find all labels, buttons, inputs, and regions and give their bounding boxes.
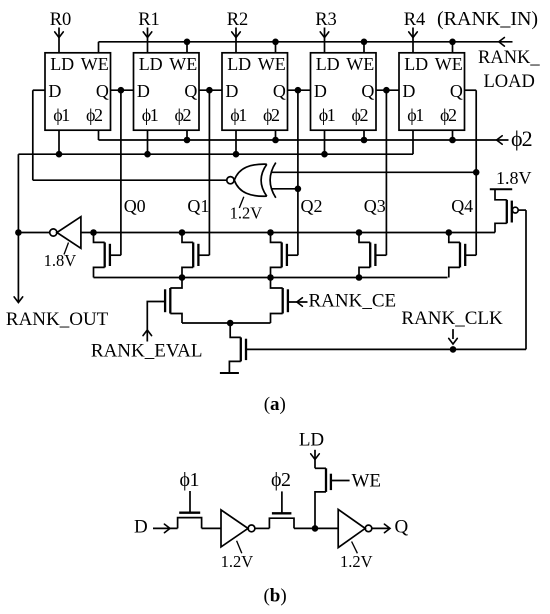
caption (a) xyxy=(264,394,286,415)
svg-text:WE: WE xyxy=(435,54,463,74)
svg-text:ϕ2: ϕ2 xyxy=(263,105,279,125)
wire Q1 vertical to transistor gate xyxy=(208,90,210,255)
input R0 label xyxy=(50,10,72,30)
wire Q4 output tap xyxy=(465,89,477,91)
svg-text:WE: WE xyxy=(258,54,286,74)
wire D input with arrow (fig b) xyxy=(153,524,178,533)
node Q2-XNOR junction xyxy=(295,186,302,193)
svg-text:Q1: Q1 xyxy=(187,196,209,216)
svg-text:D: D xyxy=(134,516,148,537)
register REG2 box xyxy=(222,53,288,130)
wire RANK_CLK input arrow xyxy=(449,329,458,344)
svg-text:ϕ1: ϕ1 xyxy=(53,105,69,125)
svg-text:D: D xyxy=(137,81,150,101)
label RANK_CLK xyxy=(401,308,503,329)
svg-text:LOAD: LOAD xyxy=(484,72,535,92)
xnor gate U1 xyxy=(227,163,276,198)
svg-text:ϕ2: ϕ2 xyxy=(440,105,456,125)
wire Q3 output to REG4 D input xyxy=(376,87,399,94)
svg-text:1.8V: 1.8V xyxy=(44,251,77,270)
label Q2 xyxy=(301,196,323,216)
svg-text:ϕ2: ϕ2 xyxy=(511,126,532,151)
node Q4-XNOR junction xyxy=(473,169,480,176)
label (RANK_IN) xyxy=(437,8,538,30)
wire Q3 vertical to transistor gate xyxy=(385,90,387,255)
label Q output (fig b) xyxy=(395,517,409,538)
svg-text:1.2V: 1.2V xyxy=(230,204,263,223)
svg-text:WE: WE xyxy=(169,54,197,74)
transistor M_CE xyxy=(271,278,308,324)
svg-text:Q: Q xyxy=(361,81,374,101)
svg-text:R3: R3 xyxy=(315,10,337,30)
svg-text:R4: R4 xyxy=(404,10,426,30)
svg-text:Q: Q xyxy=(395,517,409,538)
wire Q2 output to REG3 D input xyxy=(288,87,311,94)
svg-text:1.8V: 1.8V xyxy=(496,168,532,188)
transistor M_WE with LD input (fig b) xyxy=(311,450,350,529)
svg-text:WE: WE xyxy=(352,470,382,491)
svg-text:ϕ2: ϕ2 xyxy=(86,105,102,125)
svg-text:Q2: Q2 xyxy=(301,196,323,216)
svg-text:D: D xyxy=(314,81,327,101)
wire phi1 bus xyxy=(18,130,413,232)
svg-text:ϕ2: ϕ2 xyxy=(271,469,291,491)
transistor M_CLK xyxy=(229,323,526,373)
svg-text:LD: LD xyxy=(227,54,251,74)
svg-text:RANK_CE: RANK_CE xyxy=(309,290,397,311)
svg-text:(RANK_IN): (RANK_IN) xyxy=(437,8,538,30)
pass transistor phi2 (fig b) xyxy=(269,491,294,528)
wire XNOR bottom input from Q2 xyxy=(272,188,298,190)
svg-text:ϕ1: ϕ1 xyxy=(319,105,335,125)
transistor M0 Q0 xyxy=(90,229,121,277)
svg-text:(a): (a) xyxy=(264,394,286,415)
register REG4 pin labels xyxy=(402,54,463,125)
wire Q0 output to REG1 D input xyxy=(111,87,134,94)
register REG3 pin labels xyxy=(314,54,375,125)
label phi2 (fig b) xyxy=(271,469,291,491)
label phi2 input xyxy=(511,126,532,151)
label Q3 xyxy=(364,196,386,216)
svg-text:R0: R0 xyxy=(50,10,72,30)
register REG0 box xyxy=(45,53,111,130)
input R1 wire with arrow to LD pin xyxy=(143,28,152,53)
label RANK_CE xyxy=(309,290,397,311)
transistor M1 Q1 xyxy=(179,229,210,277)
transistor M_PRE pmos 1.8V xyxy=(490,189,526,349)
svg-text:ϕ2: ϕ2 xyxy=(175,105,191,125)
input R4 label xyxy=(404,10,426,30)
input R1 label xyxy=(138,10,160,30)
svg-text:LD: LD xyxy=(50,54,74,74)
svg-text:ϕ1: ϕ1 xyxy=(142,105,158,125)
label 1.8V for M_PRE xyxy=(496,168,532,188)
inverter U3 1.2V (fig b) xyxy=(221,510,255,547)
register REG1 pin labels xyxy=(137,54,198,125)
svg-text:RANK_CLK: RANK_CLK xyxy=(401,308,503,329)
svg-text:WE: WE xyxy=(81,54,109,74)
wire match line bus xyxy=(15,229,495,236)
wire evaluation rail xyxy=(94,274,448,281)
svg-text:Q: Q xyxy=(184,81,197,101)
label 1.2V for U4 xyxy=(340,542,373,572)
svg-text:Q: Q xyxy=(450,81,463,101)
wire Q4 vertical to transistor gate xyxy=(475,90,477,255)
wire Q0 vertical to transistor gate xyxy=(120,90,122,255)
transistor M4 Q4 xyxy=(446,229,477,277)
wire U3 output to phi2 pass (fig b) xyxy=(255,527,270,529)
register REG3 box xyxy=(311,53,377,130)
svg-text:Q: Q xyxy=(96,81,109,101)
svg-text:RANK_OUT: RANK_OUT xyxy=(6,309,109,330)
label D input (fig b) xyxy=(134,516,148,537)
svg-text:D: D xyxy=(225,81,238,101)
svg-text:LD: LD xyxy=(299,429,324,450)
label WE (fig b) xyxy=(352,470,382,491)
svg-text:Q0: Q0 xyxy=(124,196,146,216)
caption (b) xyxy=(263,585,286,606)
label Q0 xyxy=(124,196,146,216)
input R2 wire with arrow to LD pin xyxy=(232,28,241,53)
input R3 label xyxy=(315,10,337,30)
label phi1 (fig b) xyxy=(180,469,200,491)
input R4 wire with arrow to LD pin xyxy=(409,28,418,53)
svg-text:ϕ1: ϕ1 xyxy=(180,469,200,491)
svg-text:ϕ1: ϕ1 xyxy=(407,105,423,125)
wire phi1 pass to U3 (fig b) xyxy=(202,527,221,529)
label RANK_OUT xyxy=(6,309,109,330)
svg-text:Q: Q xyxy=(273,81,286,101)
input R0 wire with arrow to LD pin xyxy=(55,28,64,53)
register REG4 box xyxy=(399,53,465,130)
wire XNOR output feedback to REG0 D xyxy=(33,90,227,180)
wire RANK_LOAD WE bus xyxy=(99,38,513,53)
svg-text:ϕ2: ϕ2 xyxy=(352,105,368,125)
svg-text:D: D xyxy=(402,81,415,101)
svg-text:ϕ1: ϕ1 xyxy=(230,105,246,125)
inverter U4 1.2V (fig b) xyxy=(338,509,372,547)
input R2 label xyxy=(227,10,249,30)
svg-text:LD: LD xyxy=(139,54,163,74)
inverter U2 1.8V output xyxy=(50,217,81,249)
svg-text:RANK_: RANK_ xyxy=(478,48,540,68)
ground xyxy=(220,372,239,374)
svg-text:LD: LD xyxy=(316,54,340,74)
wire phi2 bus xyxy=(99,130,509,144)
svg-text:1.2V: 1.2V xyxy=(340,552,373,571)
label Q1 xyxy=(187,196,209,216)
wire XNOR top input from Q4 xyxy=(271,171,476,173)
transistor M3 Q3 xyxy=(356,229,387,277)
svg-text:Q3: Q3 xyxy=(364,196,386,216)
svg-text:R2: R2 xyxy=(227,10,249,30)
label LD (fig b) xyxy=(299,429,324,450)
svg-text:R1: R1 xyxy=(138,10,160,30)
wire Q2 vertical to transistor gate xyxy=(297,90,299,255)
transistor M2 Q2 xyxy=(267,229,298,277)
input R3 wire with arrow to LD pin xyxy=(320,28,329,53)
register REG0 pin labels xyxy=(48,54,109,125)
pass transistor phi1 (fig b) xyxy=(178,491,202,528)
label RANK_EVAL xyxy=(91,341,203,362)
svg-text:1.2V: 1.2V xyxy=(221,552,254,571)
wire RANK_OUT with arrow xyxy=(14,233,23,303)
register REG2 pin labels xyxy=(225,54,286,125)
wire Q output with arrow (fig b) xyxy=(372,524,390,533)
transistor M_EVAL xyxy=(143,278,182,342)
svg-text:D: D xyxy=(48,81,61,101)
wire Q1 output to REG2 D input xyxy=(199,87,222,94)
svg-text:LD: LD xyxy=(404,54,428,74)
register REG1 box xyxy=(134,53,200,130)
label 1.2V for U1 xyxy=(230,197,263,223)
label 1.8V for U2 xyxy=(44,243,77,271)
wire eval-ce common node xyxy=(182,320,271,327)
label Q4 xyxy=(451,196,473,216)
svg-text:(b): (b) xyxy=(263,585,286,606)
label 1.2V for U3 xyxy=(221,541,254,571)
svg-text:Q4: Q4 xyxy=(451,196,473,216)
label RANK_LOAD xyxy=(478,48,540,92)
svg-text:WE: WE xyxy=(346,54,374,74)
wire phi2 pass to U4 (fig b) xyxy=(294,525,338,532)
svg-text:RANK_EVAL: RANK_EVAL xyxy=(91,341,203,362)
